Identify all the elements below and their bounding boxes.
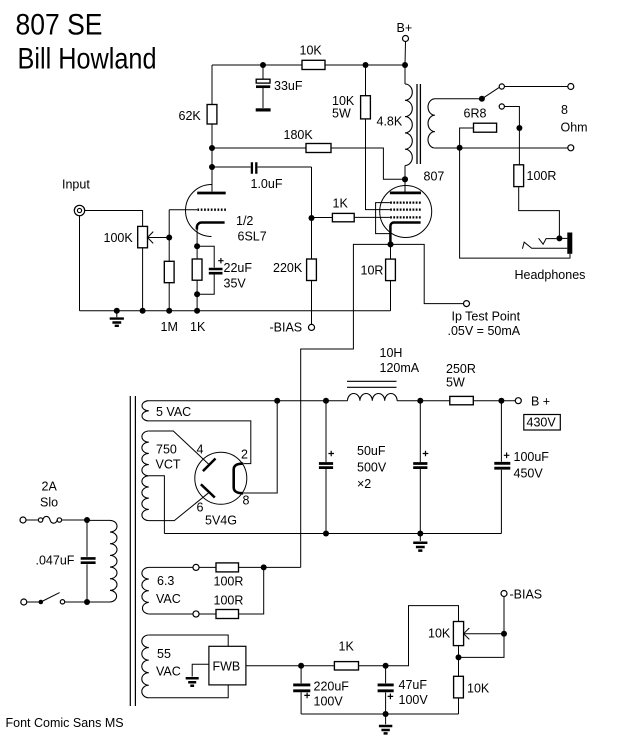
wire 10K5W to screen grid [366, 65, 390, 210]
wire 5VAC bottom to pin2 [149, 421, 251, 464]
label 10H 120mA [380, 346, 420, 375]
svg-text:50uF: 50uF [357, 444, 386, 458]
svg-text:Font Comic Sans MS: Font Comic Sans MS [6, 716, 124, 730]
label 1K cathode [190, 320, 206, 334]
svg-text:10R: 10R [361, 264, 384, 278]
node dot switch common [479, 96, 485, 102]
terminal mains top [20, 517, 26, 523]
svg-text:6.3: 6.3 [157, 574, 174, 588]
svg-text:-BIAS: -BIAS [270, 321, 303, 335]
node dot 807 plate junction [402, 176, 408, 182]
label B + output [531, 395, 550, 409]
capacitor 220uF 100V [293, 666, 310, 714]
svg-text:1K: 1K [190, 320, 206, 334]
transformer OPT core [417, 84, 420, 164]
wire secondary bottom line [435, 147, 568, 149]
wire 220K node to 1K grid stopper [312, 217, 333, 219]
node dot wiper junction [166, 235, 172, 241]
label 4.8K [377, 115, 403, 129]
resistor 180K feedback [306, 144, 331, 153]
label 1M [161, 320, 178, 334]
label 180K [284, 128, 314, 142]
ground symbol bias [379, 714, 392, 733]
wire heater bottom to 100R [199, 613, 216, 615]
label 5 VAC [156, 405, 191, 419]
resistor 100R humdinger bottom [216, 610, 239, 619]
wire 55 bottom to FWB [149, 685, 228, 698]
headphone plug symbol [522, 238, 567, 248]
tube 807 cathode [390, 223, 420, 244]
label 1K bias [339, 640, 355, 654]
wire cathode node to Ip test point [391, 244, 464, 303]
svg-text:100R: 100R [214, 575, 244, 589]
resistor 62K [207, 105, 217, 125]
node dot plate coupling junction [209, 164, 215, 170]
wire cathode node to heater humdinger [301, 244, 391, 567]
wire humdinger to cathode line [264, 566, 301, 568]
svg-text:100V: 100V [399, 693, 429, 707]
svg-text:-BIAS: -BIAS [510, 588, 543, 602]
svg-text:450V: 450V [514, 467, 544, 481]
resistor 10K 5W screen feed [361, 96, 371, 119]
capacitor .047uF line [81, 520, 96, 602]
tube 807 screen grid dashes [390, 208, 421, 210]
svg-text:55: 55 [157, 647, 171, 661]
switch SW1 lever [482, 88, 499, 99]
svg-text:B +: B + [531, 395, 550, 409]
ground symbol input [110, 311, 124, 326]
svg-text:Input: Input [62, 178, 90, 192]
wire throw1 to 8 ohm terminal [504, 86, 567, 88]
node dot ground stub [114, 308, 120, 314]
node dot humdinger junction [261, 564, 267, 570]
node dot cap2 bottom ground [417, 531, 423, 537]
wire 6.3 bottom lead [149, 613, 193, 615]
switch throw 1 contact [499, 84, 504, 89]
terminal heater bottom [193, 611, 199, 617]
terminal -BIAS preamp [308, 324, 314, 330]
terminal heater top [193, 564, 199, 570]
node dot 807 cathode junction [387, 241, 393, 247]
transformer T1 OPT primary 4.8K [405, 65, 412, 179]
label 220K [273, 261, 303, 275]
label 10K 5W [332, 94, 355, 121]
transformer primary winding [110, 520, 117, 602]
wire 1K to rail [196, 246, 198, 310]
label 1K grid [333, 197, 349, 211]
resistor 1K grid stopper [332, 213, 354, 221]
wire 100R top to node [239, 566, 264, 568]
wire 6SL7 cathode lead [196, 229, 198, 246]
tube 6SL7 cathode [197, 223, 225, 230]
node dot wiper bias junction [501, 631, 507, 637]
title text Bill Howland [18, 43, 157, 76]
svg-text:100uF: 100uF [514, 450, 550, 464]
label .047uF [36, 554, 75, 568]
node dot 22uF bottom junction [194, 291, 200, 297]
svg-text:100R: 100R [527, 169, 557, 183]
svg-text:Bill Howland: Bill Howland [18, 43, 157, 76]
wire 180K to 807 plate node [331, 148, 403, 179]
wire 100R to jack tip [519, 187, 560, 239]
wire 100R bottom up to junction [239, 567, 264, 614]
node dot 100uF top [498, 398, 504, 404]
svg-text:VAC: VAC [156, 592, 181, 606]
transformer 6.3VAC winding [142, 567, 149, 614]
label 10R [361, 264, 384, 278]
svg-text:5 VAC: 5 VAC [156, 405, 191, 419]
node dot 33uF rail junction [260, 62, 266, 68]
node dot cathode junction [194, 243, 200, 249]
potentiometer 100K [138, 226, 154, 247]
label 807 [424, 170, 445, 184]
wire -BIAS vertical [459, 597, 505, 658]
node dot filter cap1 top [323, 398, 329, 404]
label pin 4 [197, 443, 204, 457]
wire input jack ground lead [79, 216, 81, 311]
label 1/2 6SL7 [236, 214, 267, 244]
svg-text:220K: 220K [273, 261, 303, 275]
node dot line cap bottom [84, 599, 90, 605]
input jack J1 [74, 205, 84, 215]
label 100R headphone [527, 169, 557, 183]
wire top rail B+ feed [212, 64, 405, 66]
wire 750 bottom to pin6 plate [149, 493, 209, 521]
wire 180K left lead [212, 147, 306, 149]
transformer T2 core [130, 396, 135, 706]
svg-text:6: 6 [197, 501, 204, 515]
svg-text:4.8K: 4.8K [377, 115, 403, 129]
resistor 10K plate feed [302, 60, 325, 69]
potentiometer 10K bias adjust [453, 622, 469, 646]
svg-text:120mA: 120mA [380, 361, 420, 375]
tube 6SL7 grid dashes [197, 209, 227, 211]
label -BIAS supply [510, 588, 543, 602]
wire to primary bottom [87, 601, 110, 603]
label 6R8 [464, 107, 487, 121]
wire jack tip to sleeve contact [559, 237, 567, 239]
resistor 10R cathode sense [386, 259, 396, 281]
wire headphone return [460, 148, 570, 258]
wire 62K branch vertical [211, 65, 213, 167]
wire FWB output [246, 665, 335, 667]
svg-text:5W: 5W [446, 376, 465, 390]
wire 1K to 807 control grid [354, 216, 390, 218]
label Ip Test Point [448, 310, 521, 339]
tube 807 plate [390, 179, 421, 193]
wire 750 top to pin4 plate [149, 431, 209, 464]
svg-text:B+: B+ [397, 21, 413, 35]
wire FWB ground lead [192, 664, 209, 676]
svg-text:220uF: 220uF [314, 680, 350, 694]
label B+ top [397, 21, 413, 35]
capacitor C1 33uF decoupling [256, 65, 271, 110]
node dot 1M top rail [166, 308, 172, 314]
node dot cap1 bottom [323, 531, 329, 537]
wire pin8 to B+ rail [244, 401, 278, 493]
resistor 220K grid leak [307, 259, 317, 281]
svg-text:1/2: 1/2 [236, 214, 253, 228]
headphone jack body [567, 233, 572, 254]
svg-text:Headphones: Headphones [515, 268, 586, 282]
title text 807 SE [16, 9, 103, 42]
node dot 100K bottom on rail [140, 308, 146, 314]
wire PSU ground rail [164, 533, 501, 535]
node dot 180K tap [209, 145, 215, 151]
wire 750 center tap to ground [149, 476, 165, 534]
label 100uF 450V [514, 450, 550, 481]
label pin 8 [243, 494, 250, 508]
svg-text:100K: 100K [104, 231, 134, 245]
tube U1 6SL7 envelope arc [186, 185, 212, 237]
svg-text:VCT: VCT [156, 458, 181, 472]
fuse F1 [26, 516, 87, 523]
node dot 220uF top [298, 663, 304, 669]
node dot filter cap2 top [417, 398, 423, 404]
ground symbol FWB [186, 678, 199, 685]
svg-text:8: 8 [561, 103, 568, 117]
capacitor C3 1.0uF coupling [212, 162, 312, 174]
resistor 6R8 [474, 123, 497, 132]
inductor L1 10H choke [347, 381, 397, 400]
capacitor C2 22uF [197, 246, 224, 294]
capacitor 50uF first [319, 401, 334, 534]
wire secondary top to switch [435, 98, 482, 100]
label 750 VCT [156, 443, 181, 472]
label 10K lower [467, 682, 490, 696]
terminal -BIAS supply [501, 591, 507, 597]
label pin 2 [241, 448, 248, 462]
transformer OPT secondary [428, 99, 435, 148]
svg-text:2A: 2A [42, 480, 58, 494]
svg-text:×2: ×2 [357, 477, 371, 491]
label Headphones [515, 268, 586, 282]
svg-text:62K: 62K [179, 109, 202, 123]
svg-text:100V: 100V [314, 695, 344, 709]
svg-text:FWB: FWB [213, 660, 241, 674]
label 6.3 VAC [156, 574, 181, 606]
capacitor 47uF 100V [378, 666, 394, 714]
svg-text:.05V = 50mA: .05V = 50mA [448, 324, 521, 338]
label Font Comic Sans MS [6, 716, 124, 730]
wire 6.3 top lead [149, 566, 193, 568]
svg-text:Ip Test Point: Ip Test Point [452, 310, 521, 324]
svg-text:807: 807 [424, 170, 445, 184]
tube 5V4G plate pin6 [201, 484, 215, 497]
label 10K [300, 44, 323, 58]
wire grid to tube [169, 209, 197, 211]
label 430V box [524, 415, 561, 431]
svg-text:5V4G: 5V4G [205, 514, 237, 528]
wire 6R8 node to 100R [518, 128, 520, 165]
node dot 1K bottom rail [194, 308, 200, 314]
svg-text:.047uF: .047uF [36, 554, 75, 568]
label 62K [179, 109, 202, 123]
wire 6R8 left lead [460, 128, 474, 148]
tube 6SL7 plate [197, 192, 226, 195]
svg-text:430V: 430V [527, 416, 557, 430]
resistor 1M [164, 261, 174, 282]
wire grid network vertical [168, 210, 170, 311]
label -BIAS preamp [270, 321, 303, 335]
node dot 10K5W top [363, 62, 369, 68]
label 55 VAC [156, 647, 181, 679]
terminal B+ output [515, 398, 521, 404]
svg-text:6R8: 6R8 [464, 107, 487, 121]
terminal Ip test point [464, 301, 470, 307]
tube V2 807 envelope [380, 186, 432, 238]
wire pot bottom to 10K [458, 646, 460, 677]
node dot 6R8 right junction [516, 125, 522, 131]
wire 220K leads to -BIAS [311, 218, 313, 325]
label 50uF 500V x2 [357, 444, 387, 491]
svg-text:1K: 1K [339, 640, 355, 654]
label 8 Ohm [561, 103, 588, 135]
label 5V4G [205, 514, 237, 528]
svg-text:5W: 5W [332, 107, 351, 121]
node dot secondary bottom junction [457, 145, 463, 151]
wire 10K to ground rail [458, 698, 460, 714]
wire bias ground rail [301, 713, 458, 715]
node dot line cap top [84, 517, 90, 523]
capacitor 50uF second [413, 401, 428, 534]
capacitor 100uF 450V [494, 401, 510, 534]
wire 100K wiper to grid line [148, 237, 170, 239]
rectifier FWB box [209, 646, 246, 685]
wire to primary top [87, 519, 110, 521]
node dot 220K top [309, 215, 315, 221]
tube V3 5V4G envelope [195, 452, 247, 504]
switch throw 2 contact [499, 104, 504, 109]
svg-text:22uF: 22uF [224, 261, 253, 275]
transformer 55VAC winding [142, 635, 149, 698]
node dot B plus junction [402, 62, 408, 68]
svg-text:100R: 100R [214, 594, 244, 608]
wire pot wiper to bias line [464, 633, 504, 635]
wire coupling down to grid node [311, 167, 313, 218]
switch SW2 mains [27, 593, 87, 605]
svg-text:10K: 10K [428, 627, 451, 641]
terminal B+ top [403, 36, 409, 66]
wire PSU B+ rail [149, 400, 516, 402]
terminal mains bottom [21, 599, 27, 605]
label 250R 5W [446, 362, 476, 390]
svg-text:2: 2 [241, 448, 248, 462]
terminal 8 ohm hot [568, 84, 574, 90]
label 22uF 35V [224, 261, 253, 291]
svg-text:Slo: Slo [40, 496, 58, 510]
node dot jack tip junction [556, 235, 562, 241]
resistor 100R headphone [514, 165, 524, 187]
label pin 6 [197, 501, 204, 515]
tube 5V4G filament [234, 464, 244, 494]
svg-text:180K: 180K [284, 128, 314, 142]
node dot pin8 rail junction [274, 398, 280, 404]
svg-text:10K: 10K [467, 682, 490, 696]
tube 807 beam plate dashes [390, 201, 421, 203]
wire heater top to 100R [199, 566, 216, 568]
label 100R bottom [214, 594, 244, 608]
svg-text:4: 4 [197, 443, 204, 457]
wire 55 top to FWB [149, 635, 228, 646]
tube 807 control grid dashes [390, 216, 421, 218]
label 100R top [214, 575, 244, 589]
node dot pot bottom junction [456, 654, 462, 660]
label 10K pot [428, 627, 451, 641]
resistor 100R humdinger top [216, 563, 239, 572]
svg-text:250R: 250R [446, 362, 476, 376]
svg-text:500V: 500V [357, 461, 387, 475]
label 2A Slo fuse [40, 480, 58, 510]
resistor 1K bias filter [334, 662, 358, 670]
node dot 47uF top [383, 663, 389, 669]
wire 10R leads [390, 244, 392, 310]
resistor 10K bias lower [454, 676, 464, 698]
svg-text:33uF: 33uF [274, 79, 303, 93]
svg-text:Ohm: Ohm [561, 121, 588, 135]
svg-text:VAC: VAC [156, 665, 181, 679]
transformer 750VCT winding [142, 431, 149, 521]
wire 6SL7 plate lead [211, 167, 213, 192]
svg-text:1K: 1K [333, 197, 349, 211]
resistor 250R 5W [450, 396, 474, 404]
resistor 1K cathode [192, 259, 202, 280]
svg-text:1.0uF: 1.0uF [251, 177, 283, 191]
svg-text:47uF: 47uF [399, 678, 428, 692]
svg-text:10K: 10K [300, 44, 323, 58]
wire 1K to pot riser [359, 606, 459, 666]
tube 5V4G plate pin4 [203, 459, 216, 472]
node Input label [62, 178, 90, 192]
label 220uF 100V [314, 680, 350, 709]
svg-text:8: 8 [243, 494, 250, 508]
svg-text:807 SE: 807 SE [16, 9, 103, 42]
svg-text:10H: 10H [380, 346, 403, 360]
svg-text:1M: 1M [161, 320, 178, 334]
svg-text:6SL7: 6SL7 [238, 230, 267, 244]
svg-text:35V: 35V [224, 277, 247, 291]
svg-text:750: 750 [156, 443, 177, 457]
wire 100K bottom to ground rail [142, 248, 144, 311]
label 1.0uF [251, 177, 283, 191]
wire ground rail [80, 310, 391, 312]
wire input jack to 100K pot top [85, 211, 143, 227]
label 47uF 100V [399, 678, 429, 707]
label 100K [104, 231, 134, 245]
transformer 5VAC winding [142, 401, 149, 421]
node dot bias ground [383, 711, 389, 717]
ground symbol PSU [413, 534, 427, 551]
label 33uF [274, 79, 303, 93]
wire 807 beam plate to cathode tie [376, 203, 390, 234]
wire throw2 to 6R8 right [504, 107, 519, 129]
terminal 8 ohm return [568, 145, 574, 151]
